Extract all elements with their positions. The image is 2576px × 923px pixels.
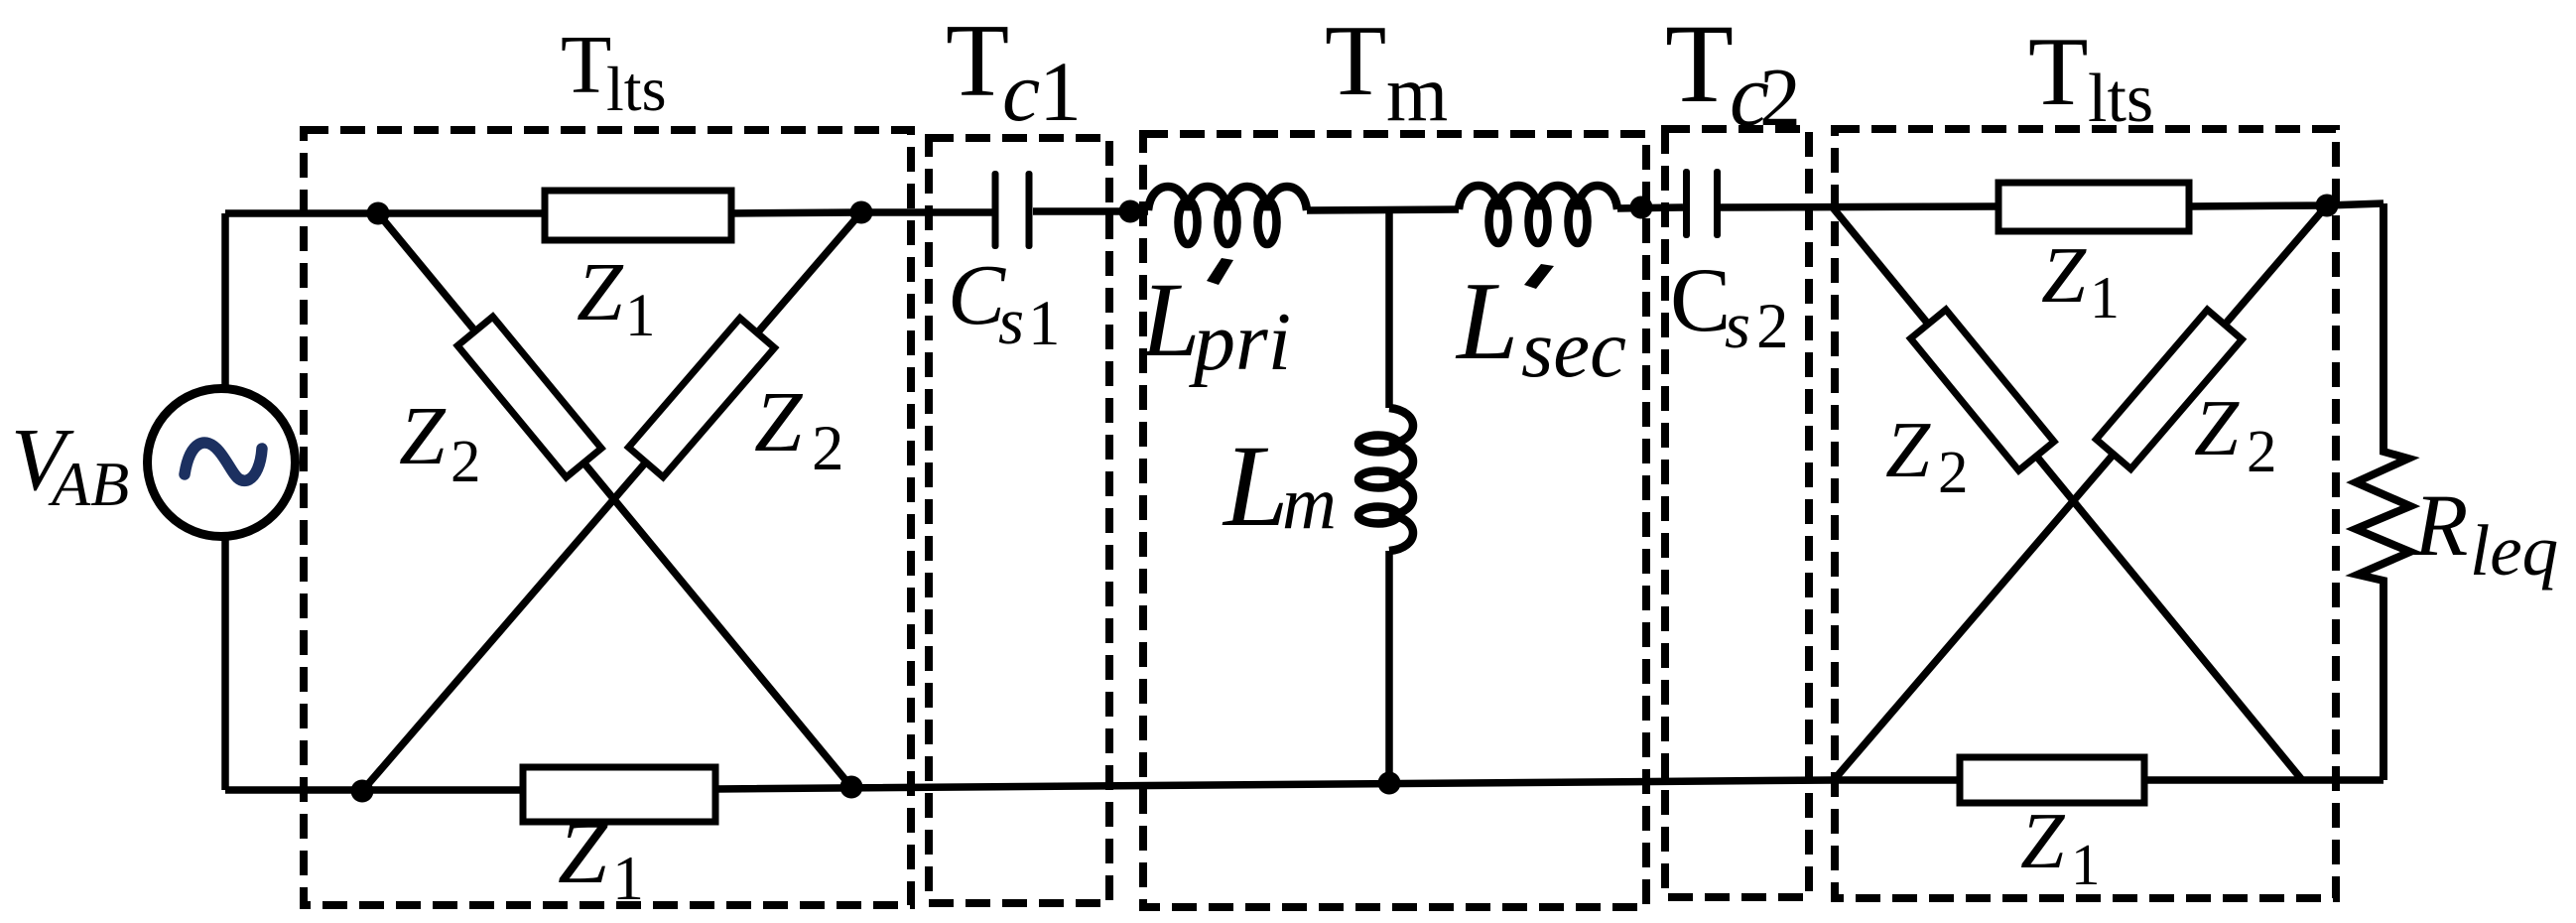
svg-text:T: T <box>1665 2 1734 126</box>
svg-text:Z: Z <box>2041 230 2087 320</box>
svg-text:lts: lts <box>606 54 666 124</box>
svg-text:T: T <box>1325 5 1386 117</box>
svg-text:2: 2 <box>451 429 481 495</box>
svg-text:L: L <box>1222 421 1289 551</box>
svg-text:1: 1 <box>2090 265 2120 330</box>
svg-text:2: 2 <box>1756 291 1789 362</box>
svg-text:1: 1 <box>612 843 644 913</box>
svg-text:c: c <box>1002 44 1040 139</box>
svg-text:AB: AB <box>48 449 129 519</box>
svg-text:2: 2 <box>812 413 844 484</box>
svg-text:T: T <box>561 19 611 111</box>
svg-text:lts: lts <box>2088 61 2153 137</box>
svg-text:1: 1 <box>1039 44 1082 139</box>
svg-text:s: s <box>1725 289 1750 362</box>
svg-text:2: 2 <box>2247 419 2277 485</box>
svg-text:m: m <box>1386 51 1448 138</box>
svg-text:L: L <box>1139 262 1201 379</box>
svg-text:2: 2 <box>1759 52 1801 144</box>
svg-text:1: 1 <box>625 283 656 349</box>
svg-text:1: 1 <box>1028 288 1061 359</box>
svg-text:Z: Z <box>577 246 624 338</box>
svg-text:s: s <box>998 285 1024 358</box>
svg-text:Z: Z <box>399 390 447 482</box>
svg-text:T: T <box>946 2 1009 118</box>
svg-text:sec: sec <box>1521 303 1626 394</box>
svg-text:2: 2 <box>1938 440 1969 506</box>
svg-text:1: 1 <box>2071 832 2101 897</box>
svg-text:pri: pri <box>1189 296 1291 388</box>
svg-text:Z: Z <box>558 804 608 902</box>
svg-text:T: T <box>2028 18 2088 126</box>
svg-text:m: m <box>1282 461 1337 545</box>
svg-text:Z: Z <box>1885 405 1931 494</box>
svg-text:C: C <box>1670 249 1731 350</box>
svg-text:L: L <box>1455 260 1518 383</box>
svg-text:R: R <box>2413 477 2468 575</box>
svg-text:leq: leq <box>2470 510 2558 591</box>
svg-text:Z: Z <box>2020 798 2066 885</box>
svg-text:Z: Z <box>754 373 804 469</box>
svg-text:Z: Z <box>2194 383 2240 472</box>
